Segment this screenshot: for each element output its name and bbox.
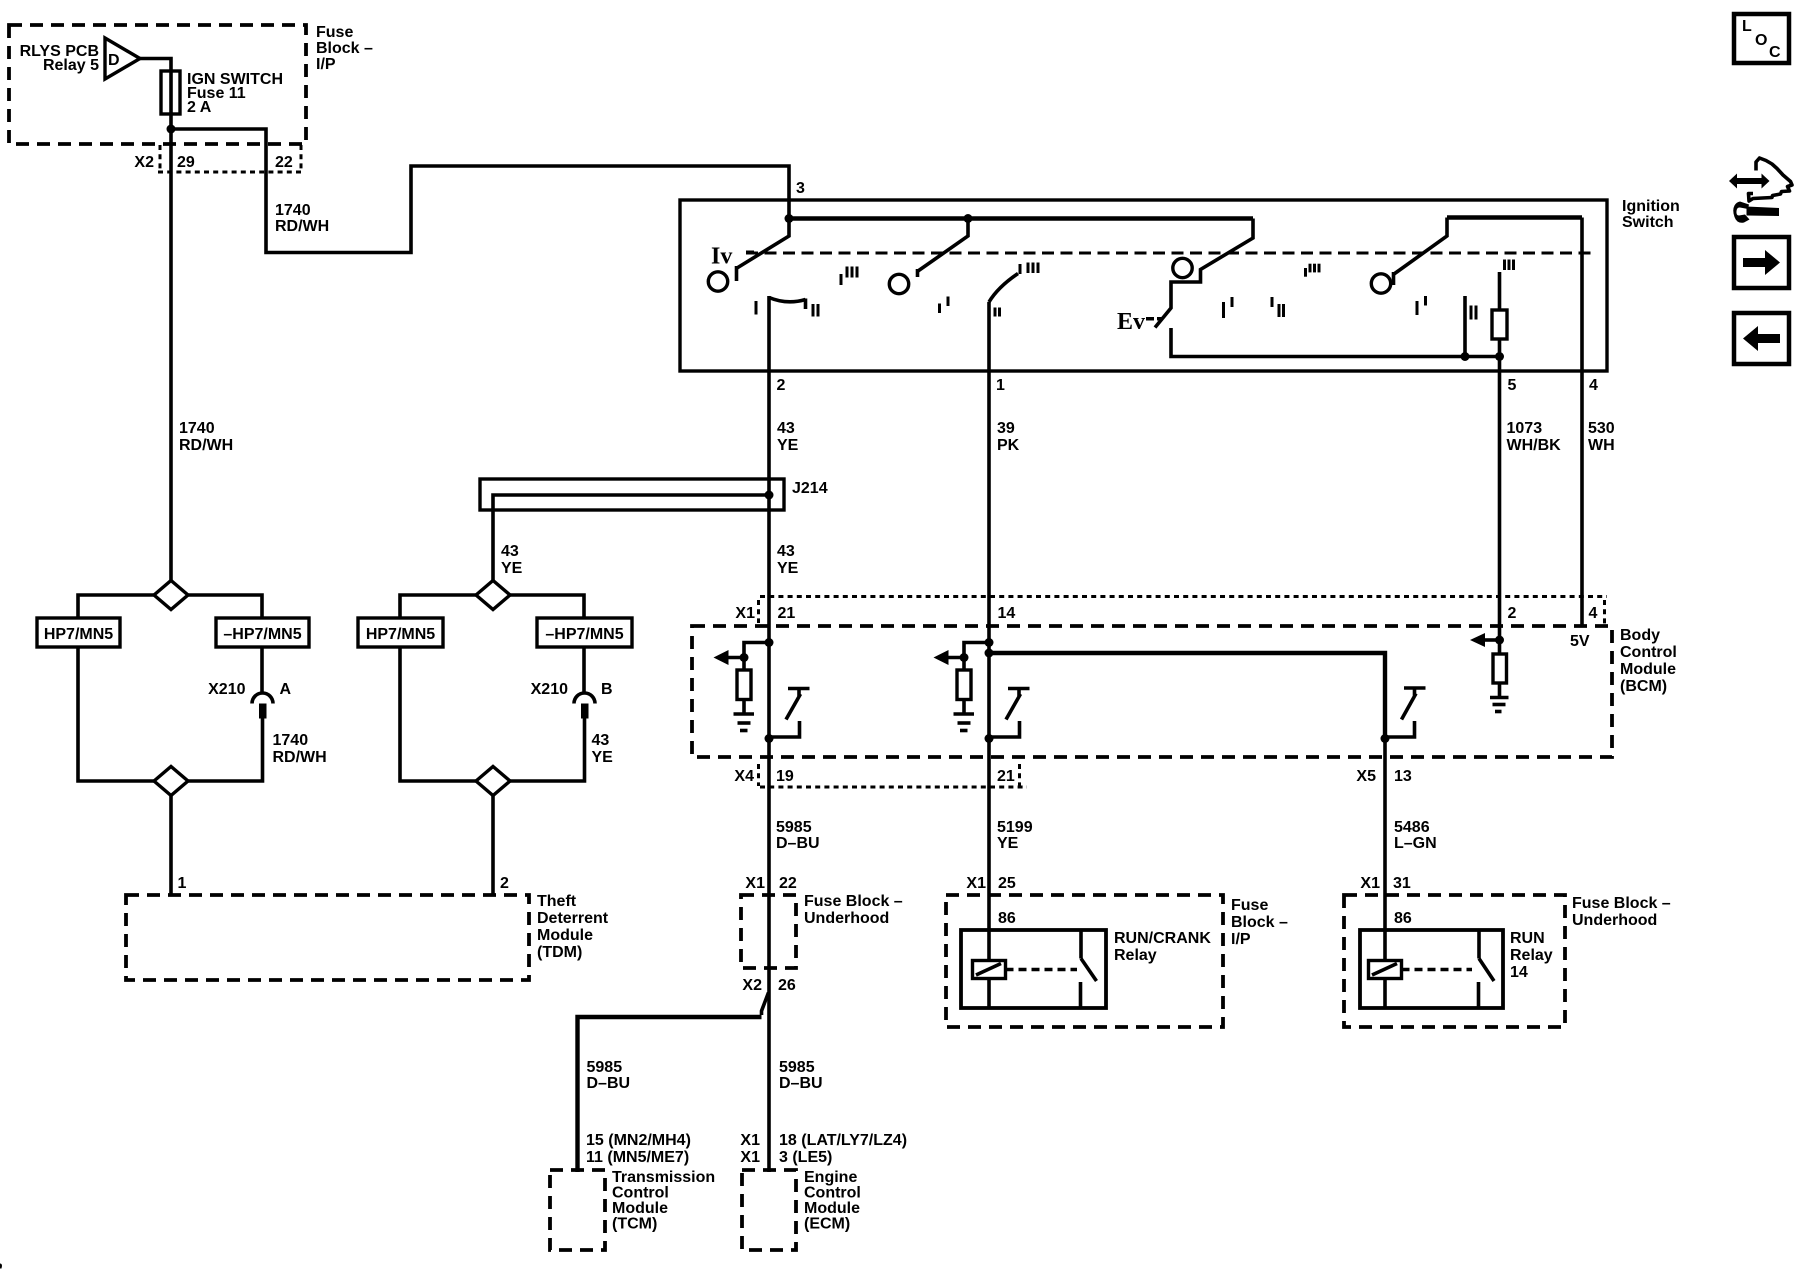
wire 43 YE pin2 down — [767, 371, 771, 598]
relay driver D triangle — [105, 38, 140, 79]
svg-text:C: C — [1769, 44, 1781, 61]
svg-text:Control: Control — [1620, 644, 1677, 661]
detent arc tick — [804, 299, 808, 310]
junction below fuse — [167, 125, 176, 134]
svg-text:3: 3 — [796, 180, 805, 197]
junction at sense node 1 — [740, 653, 749, 662]
wire below X210 B — [510, 719, 585, 782]
svg-text:Underhood: Underhood — [804, 910, 889, 927]
svg-text:X210: X210 — [531, 681, 568, 698]
svg-text:X5: X5 — [1356, 768, 1376, 785]
svg-text:(TCM): (TCM) — [612, 1216, 657, 1233]
svg-text:X1: X1 — [740, 1149, 760, 1166]
wire pin 2 inside box — [767, 296, 771, 371]
wire 1740 RD/WH down left — [169, 135, 173, 581]
wire pin 4 — [1580, 218, 1584, 372]
forward arrow icon box — [1734, 237, 1789, 288]
svg-text:D: D — [108, 52, 120, 69]
svg-text:43: 43 — [592, 732, 610, 749]
svg-text:22: 22 — [275, 154, 293, 171]
svg-text:Fuse Block –: Fuse Block – — [1572, 895, 1671, 912]
svg-text:530: 530 — [1588, 420, 1615, 437]
svg-text:Fuse: Fuse — [1231, 897, 1268, 914]
run relay box — [1360, 930, 1503, 1008]
switch 3 contact circle — [1173, 258, 1192, 277]
svg-text:43: 43 — [777, 420, 795, 437]
switch 4 blade tip — [1392, 272, 1396, 285]
wire to TDM pin 1 — [169, 796, 173, 896]
junction — [985, 638, 994, 647]
svg-text:YE: YE — [501, 560, 523, 577]
wire left box down — [400, 647, 476, 781]
svg-text:(TDM): (TDM) — [537, 944, 582, 961]
position marks small pair C — [1416, 301, 1419, 315]
junction dots on lower lead — [1461, 352, 1470, 361]
svg-text:HP7/MN5: HP7/MN5 — [44, 626, 113, 643]
svg-text:4: 4 — [1589, 605, 1598, 622]
wire 1073 WH/BK pin5 down — [1498, 371, 1502, 598]
svg-text:1073: 1073 — [1507, 420, 1543, 437]
svg-text:Deterrent: Deterrent — [537, 910, 609, 927]
svg-text:RUN: RUN — [1510, 930, 1545, 947]
X2 connector strip of fuse block — [159, 145, 162, 172]
junction switch 3 bottom — [1381, 734, 1390, 743]
wire triangle to fuse — [140, 59, 171, 72]
wire 5985 down from X4 — [767, 759, 771, 1172]
wire splits — [400, 595, 476, 618]
svg-text:Control: Control — [804, 1185, 861, 1202]
TCM dashed box — [550, 1170, 605, 1250]
svg-text:Body: Body — [1620, 627, 1660, 644]
svg-text:X2: X2 — [742, 977, 762, 994]
svg-text:Block –: Block – — [1231, 914, 1288, 931]
svg-text:Block –: Block – — [316, 40, 373, 57]
svg-text:D–BU: D–BU — [587, 1075, 631, 1092]
junction pin3 — [785, 214, 794, 223]
svg-text:Module: Module — [804, 1200, 860, 1217]
svg-text:YE: YE — [592, 749, 614, 766]
diamond splice top left — [154, 581, 188, 610]
switch 1 blade — [737, 219, 789, 269]
switch 4 blade — [1394, 218, 1447, 275]
position mark IIII (right) — [1304, 268, 1307, 277]
fuse block IP dashed box — [946, 895, 1223, 1027]
position marks small pair B — [1271, 297, 1274, 307]
svg-text:D–BU: D–BU — [776, 835, 820, 852]
svg-text:X210: X210 — [208, 681, 245, 698]
branch to sense arrow — [964, 643, 989, 658]
wire to arrow 1 — [727, 656, 744, 660]
svg-text:RD/WH: RD/WH — [179, 437, 233, 454]
wire through BCM — [767, 598, 771, 759]
wrench — [1733, 202, 1749, 223]
position mark I — [755, 301, 758, 315]
relay coil — [1369, 961, 1402, 979]
wire below X210 A — [188, 719, 263, 782]
svg-text:4: 4 — [1589, 377, 1598, 394]
svg-text:B: B — [601, 681, 613, 698]
fuse block underhood dashed box — [1344, 895, 1565, 1027]
svg-text:15 (MN2/MH4): 15 (MN2/MH4) — [586, 1132, 691, 1149]
svg-text:86: 86 — [998, 910, 1016, 927]
svg-text:31: 31 — [1393, 875, 1411, 892]
svg-text:43: 43 — [777, 543, 795, 560]
wire 1740 RD/WH branch to ignition switch pin 3 — [171, 129, 789, 253]
wire to X5 — [1383, 739, 1387, 761]
body control module dashed box — [692, 626, 1612, 757]
double arrow — [1734, 178, 1765, 184]
ground — [734, 712, 755, 716]
wire through BCM — [987, 598, 991, 759]
svg-text:X1: X1 — [740, 1132, 760, 1149]
svg-text:2: 2 — [500, 875, 509, 892]
switch 2 blade tip — [916, 269, 920, 277]
position mark II — [994, 308, 997, 317]
ground — [954, 712, 975, 716]
svg-text:X1: X1 — [966, 875, 986, 892]
fuse IGN SWITCH Fuse 11 2A — [161, 71, 180, 114]
svg-text:Fuse: Fuse — [316, 24, 353, 41]
hand-drawn arrow outline — [1749, 158, 1793, 201]
svg-text:Module: Module — [537, 927, 593, 944]
J214 internal wire — [493, 495, 769, 581]
svg-text:Relay 5: Relay 5 — [43, 57, 99, 74]
svg-text:1: 1 — [996, 377, 1005, 394]
svg-text:18 (LAT/LY7/LZ4): 18 (LAT/LY7/LZ4) — [779, 1132, 907, 1149]
internal bus wire right — [1447, 215, 1582, 219]
resistor pull-down — [742, 658, 746, 671]
svg-text:RD/WH: RD/WH — [275, 218, 329, 235]
connector X210 B — [574, 693, 595, 704]
svg-text:11 (MN5/ME7): 11 (MN5/ME7) — [586, 1149, 689, 1166]
svg-text:Control: Control — [612, 1185, 669, 1202]
svg-text:1740: 1740 — [273, 732, 309, 749]
junction switch 2 — [964, 214, 973, 223]
svg-text:1: 1 — [178, 875, 187, 892]
internal switch 2 — [1008, 687, 1030, 691]
resistor inside ignition switch — [1498, 272, 1502, 310]
svg-text:Transmission: Transmission — [612, 1169, 715, 1186]
arrowhead sense 1 — [714, 650, 729, 665]
svg-text:Ev: Ev — [1117, 309, 1145, 335]
resistor pull-down — [962, 658, 966, 671]
position marks small pair A — [1222, 302, 1225, 318]
wire 530 WH pin4 down — [1580, 371, 1584, 627]
svg-text:X1: X1 — [745, 875, 765, 892]
position mark II (right) — [1470, 306, 1473, 320]
svg-text:–HP7/MN5: –HP7/MN5 — [223, 626, 301, 643]
svg-text:25: 25 — [998, 875, 1016, 892]
svg-text:–HP7/MN5: –HP7/MN5 — [545, 626, 623, 643]
svg-text:(BCM): (BCM) — [1620, 678, 1667, 695]
svg-text:WH/BK: WH/BK — [1507, 437, 1562, 454]
wire left box down — [78, 647, 154, 781]
svg-text:Module: Module — [612, 1200, 668, 1217]
svg-text:3 (LE5): 3 (LE5) — [779, 1149, 832, 1166]
switch 3 blade with Ev — [1155, 219, 1253, 328]
cross wire to third switch — [989, 653, 1385, 739]
svg-text:YE: YE — [997, 835, 1019, 852]
svg-text:5486: 5486 — [1394, 819, 1430, 836]
switch 2 position marks — [938, 304, 941, 314]
svg-text:26: 26 — [778, 977, 796, 994]
svg-text:43: 43 — [501, 543, 519, 560]
svg-text:I/P: I/P — [316, 56, 336, 73]
wire pin 1 inside box — [987, 302, 991, 371]
svg-text:Underhood: Underhood — [1572, 912, 1657, 929]
svg-text:YE: YE — [777, 560, 799, 577]
relay dashed link — [1402, 968, 1473, 971]
dashed position line — [746, 252, 1596, 255]
resistor — [1493, 654, 1507, 683]
run/crank relay box — [961, 930, 1106, 1008]
theft deterrent module dashed box — [126, 895, 529, 980]
svg-text:22: 22 — [779, 875, 797, 892]
svg-text:YE: YE — [777, 437, 799, 454]
switch 2 blade — [918, 219, 968, 272]
svg-text:I/P: I/P — [1231, 931, 1251, 948]
svg-text:Module: Module — [1620, 661, 1676, 678]
svg-text:PK: PK — [997, 437, 1020, 454]
svg-text:13: 13 — [1394, 768, 1412, 785]
wire 5199 YE down — [987, 759, 991, 961]
svg-text:(ECM): (ECM) — [804, 1216, 850, 1233]
switch 2 contact circle — [889, 274, 908, 293]
svg-text:WH: WH — [1588, 437, 1615, 454]
svg-text:Relay: Relay — [1510, 947, 1553, 964]
svg-text:L: L — [1742, 18, 1752, 35]
relay contact — [1477, 930, 1481, 959]
svg-text:5V: 5V — [1570, 633, 1590, 650]
wire to arrow 2 — [947, 656, 964, 660]
wire 39 PK pin1 down — [987, 371, 991, 598]
internal switch 1 — [788, 687, 810, 691]
internal switch 3 — [1404, 686, 1426, 690]
junction switch 2 bottom — [985, 734, 994, 743]
svg-text:Fuse Block –: Fuse Block – — [804, 893, 903, 910]
svg-text:14: 14 — [998, 605, 1016, 622]
box -HP7/MN5 (left 2) — [537, 618, 632, 647]
svg-text:39: 39 — [997, 420, 1015, 437]
svg-text:O: O — [1755, 32, 1767, 49]
junction — [765, 638, 774, 647]
wire fuse to junction — [169, 114, 173, 135]
diamond splice bottom left — [154, 767, 188, 796]
fuse block underhood small dashed box — [741, 895, 796, 968]
arrowhead — [1470, 633, 1485, 647]
back arrow icon box — [1734, 313, 1789, 364]
wire splits — [78, 595, 154, 618]
svg-text:86: 86 — [1394, 910, 1412, 927]
svg-text:Iv: Iv — [711, 244, 732, 270]
wire down to X210 A — [260, 647, 264, 693]
switch 1 contact circle — [708, 272, 727, 291]
switch 1 blade tip — [735, 266, 739, 281]
page corner mark — [0, 1264, 2, 1269]
X1 connector strip dotted — [760, 595, 1607, 598]
svg-text:HP7/MN5: HP7/MN5 — [366, 626, 435, 643]
position mark III — [1027, 263, 1030, 274]
position mark II — [812, 304, 815, 317]
service tool icon — [1729, 158, 1792, 223]
J214 box — [480, 479, 784, 510]
svg-text:X1: X1 — [1360, 875, 1380, 892]
svg-text:Switch: Switch — [1622, 214, 1674, 231]
svg-text:D–BU: D–BU — [779, 1075, 823, 1092]
internal bus wire left — [789, 216, 1253, 220]
relay coil — [973, 961, 1006, 979]
svg-text:X1: X1 — [735, 605, 755, 622]
jog branch to TCM — [762, 993, 769, 1016]
svg-text:Relay: Relay — [1114, 947, 1157, 964]
ground — [1490, 696, 1509, 700]
svg-text:X2: X2 — [134, 154, 154, 171]
svg-text:A: A — [280, 681, 292, 698]
junction — [1495, 636, 1504, 645]
svg-text:21: 21 — [778, 605, 796, 622]
svg-text:5199: 5199 — [997, 819, 1033, 836]
svg-text:1740: 1740 — [179, 420, 215, 437]
box -HP7/MN5 (left 1) — [216, 618, 309, 647]
junction cross wire — [985, 649, 994, 658]
relay contact — [1079, 930, 1083, 959]
switch 1 detent arc — [769, 298, 806, 302]
wire down to X210 B — [582, 647, 586, 693]
svg-text:2: 2 — [777, 377, 786, 394]
fuse block I/P dashed box — [9, 25, 306, 144]
svg-text:21: 21 — [997, 768, 1015, 785]
svg-text:5985: 5985 — [779, 1059, 815, 1076]
svg-text:2 A: 2 A — [187, 99, 212, 116]
svg-text:5985: 5985 — [776, 819, 812, 836]
position mark IIII — [840, 274, 843, 285]
switch 4 contact circle — [1371, 274, 1390, 293]
svg-text:5985: 5985 — [587, 1059, 623, 1076]
svg-text:14: 14 — [1510, 964, 1528, 981]
svg-text:RUN/CRANK: RUN/CRANK — [1114, 930, 1211, 947]
switch 3 lower lead — [1171, 328, 1500, 357]
svg-text:RD/WH: RD/WH — [273, 749, 327, 766]
branch to sense arrow — [744, 643, 769, 658]
wire 5486 L-GN down — [1383, 760, 1387, 961]
svg-text:2: 2 — [1508, 605, 1517, 622]
svg-text:Engine: Engine — [804, 1169, 857, 1186]
ignition switch box — [680, 200, 1607, 371]
svg-text:29: 29 — [177, 154, 195, 171]
junction at sense node 2 — [960, 653, 969, 662]
arrowhead sense 2 — [934, 650, 949, 665]
svg-text:Ignition: Ignition — [1622, 198, 1680, 215]
svg-text:J214: J214 — [792, 480, 828, 497]
ECM dashed box — [742, 1170, 796, 1250]
connector X210 A — [252, 693, 273, 704]
svg-text:X4: X4 — [734, 768, 754, 785]
svg-text:19: 19 — [776, 768, 794, 785]
svg-text:5: 5 — [1508, 377, 1517, 394]
box HP7/MN5 (left 1) — [37, 618, 120, 647]
diamond splice bottom right — [476, 767, 510, 796]
LOC icon box — [1734, 14, 1789, 63]
box HP7/MN5 (left 2) — [358, 618, 443, 647]
wire 1 detent curve — [989, 274, 1018, 303]
diamond splice top right — [476, 581, 510, 610]
svg-text:Theft: Theft — [537, 893, 577, 910]
wire pin 5 — [1498, 357, 1502, 372]
wire to TDM pin 2 — [491, 796, 495, 896]
svg-text:1740: 1740 — [275, 202, 311, 219]
position mark III above resistor — [1503, 260, 1506, 271]
relay dashed link — [1006, 968, 1078, 971]
junction at J214 — [765, 491, 774, 500]
svg-text:L–GN: L–GN — [1394, 835, 1437, 852]
junction switch 1 bottom — [765, 734, 774, 743]
contact lead position II — [1463, 296, 1467, 357]
